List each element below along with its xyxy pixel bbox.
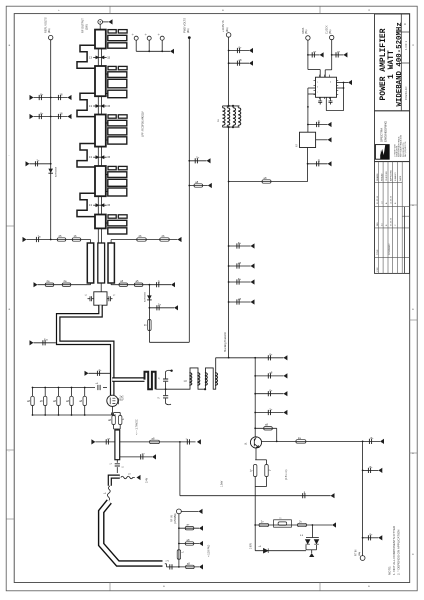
IC U1 bbox=[316, 77, 337, 97]
capacitor C33 branch bbox=[307, 124, 309, 126]
boxed component bbox=[274, 520, 292, 527]
capacitor C12 at S-trace corner bbox=[34, 342, 56, 344]
svg-text:P.MEAD: P.MEAD bbox=[380, 173, 383, 181]
svg-text:21-05-96: 21-05-96 bbox=[377, 195, 379, 204]
resistor R19 branch bbox=[178, 527, 180, 529]
capacitor C11 branch bbox=[149, 307, 151, 309]
svg-text:<---- 1.7AVDC: <---- 1.7AVDC bbox=[136, 419, 139, 435]
supply bus right bbox=[362, 441, 364, 555]
resistor R20 branch bbox=[178, 543, 180, 545]
svg-text:LPF: RC5F5/LMK5QV: LPF: RC5F5/LMK5QV bbox=[141, 111, 145, 137]
svg-text:a+: a+ bbox=[187, 524, 190, 527]
microstrip line TL1 bbox=[95, 30, 106, 49]
svg-text:RF OUTPUT: RF OUTPUT bbox=[81, 18, 85, 33]
centre microstrip TL8 bbox=[98, 243, 105, 283]
IC bottom stubs bbox=[319, 97, 321, 101]
emitter degeneration loop R24 R25 bbox=[255, 448, 257, 460]
resistor R27 bbox=[298, 523, 307, 526]
capacitor C14 branch bbox=[187, 439, 189, 444]
svg-text:5): 5) bbox=[158, 378, 160, 380]
resistor R10 bbox=[148, 320, 151, 331]
svg-text:DRAWN: DRAWN bbox=[376, 173, 379, 181]
title block right column: sheet and number cells bbox=[401, 31, 409, 33]
svg-text:APPROVED: APPROVED bbox=[390, 169, 393, 181]
BJT Q2 bbox=[250, 437, 261, 448]
svg-text:3.4V: 3.4V bbox=[146, 478, 149, 483]
emitter bias row bbox=[255, 524, 312, 526]
revision table bbox=[375, 162, 410, 274]
long wire to right bbox=[180, 495, 331, 497]
svg-text:1. NOT ALL COMPONENTS FITTED: 1. NOT ALL COMPONENTS FITTED bbox=[392, 525, 396, 575]
stub connection stubs bbox=[106, 73, 108, 75]
svg-text:N.BAILEY: N.BAILEY bbox=[394, 171, 397, 181]
diode pair vertical bbox=[311, 525, 313, 538]
terminal bottom bbox=[360, 556, 365, 561]
svg-text:8+: 8+ bbox=[40, 111, 43, 115]
thick L-trace TL12 bbox=[110, 477, 120, 486]
svg-text:8.a: 8.a bbox=[44, 338, 48, 342]
RF IN arrow bbox=[181, 510, 198, 512]
wire coil to caps bbox=[156, 388, 166, 390]
squiggle wire to C-trace bbox=[107, 486, 110, 500]
DATA terminal bbox=[306, 36, 310, 40]
svg-text:BLF: BLF bbox=[120, 399, 125, 402]
FET Q1 bbox=[107, 395, 118, 406]
supply wire down bbox=[228, 37, 230, 106]
capacitor C16 at C-trace end bbox=[165, 563, 167, 565]
gap capacitor C3 bbox=[93, 156, 106, 158]
serpentine transformer T1 with windings bbox=[166, 358, 216, 390]
svg-text:-: - bbox=[9, 449, 10, 453]
wire top of transformer bbox=[216, 357, 256, 359]
wire row to stub lines bbox=[27, 239, 91, 241]
quarter wave stub TL7 bbox=[108, 243, 114, 283]
svg-text:o+: o+ bbox=[142, 453, 145, 456]
diode D3 horizontal bbox=[254, 525, 256, 551]
choke L5 quad winding bbox=[223, 105, 240, 107]
capacitor C21 branch bbox=[362, 537, 364, 539]
svg-text:1.9aV: 1.9aV bbox=[221, 480, 224, 487]
capacitor C31 branch bbox=[307, 54, 309, 56]
capacitor C13 branch to gate bbox=[89, 372, 111, 374]
U2 right pin bbox=[316, 139, 328, 141]
resistor R9 branch bbox=[188, 185, 190, 187]
svg-text:o+: o+ bbox=[337, 51, 340, 54]
svg-text:8+: 8+ bbox=[370, 533, 373, 537]
svg-text:+: + bbox=[58, 8, 60, 12]
port arrow testpoints bbox=[170, 49, 174, 54]
svg-text:3+: 3+ bbox=[37, 159, 40, 163]
wire inductor squiggle to port bbox=[121, 476, 135, 479]
svg-text:FIT IN: FIT IN bbox=[356, 549, 358, 556]
gap capacitor C2 bbox=[93, 105, 106, 107]
DATA wire down bbox=[307, 40, 309, 69]
FWD VOLTS wire down bbox=[188, 38, 190, 343]
bias resistor bank R11-R15 bbox=[32, 387, 34, 389]
svg-text:FILE: FILE bbox=[377, 267, 379, 272]
capacitor C23 branch bbox=[228, 62, 230, 64]
capacitor C9 bbox=[157, 280, 161, 288]
svg-text:RF IN: RF IN bbox=[171, 515, 174, 522]
microstrip TL11 vertical bbox=[115, 430, 120, 460]
capacitor C19 branch bbox=[362, 441, 364, 443]
resistor R3 bbox=[137, 238, 147, 241]
capacitor C27 branch bbox=[228, 301, 230, 303]
capacitor C29 down with hook bbox=[165, 389, 167, 395]
right row from stub bbox=[110, 240, 112, 244]
svg-text:8+: 8+ bbox=[269, 389, 272, 393]
hairpin meander L3 bbox=[77, 144, 95, 168]
svg-text:(1W): (1W) bbox=[85, 24, 89, 30]
gap capacitor C4 bbox=[93, 204, 106, 206]
svg-text:(8A): (8A) bbox=[329, 29, 332, 34]
svg-text:DATA: DATA bbox=[302, 27, 305, 34]
revision table header texts bbox=[375, 181, 403, 183]
capacitor C8 bbox=[36, 234, 41, 242]
capacitor stub from TL11 bbox=[120, 456, 152, 458]
wire node vertical bbox=[179, 442, 181, 496]
svg-text:WIDEBAND 400-520MHz: WIDEBAND 400-520MHz bbox=[396, 22, 404, 106]
diode D2 bbox=[147, 295, 152, 299]
thick microstrip S-trace TL9 bbox=[58, 305, 112, 395]
svg-text:a): a) bbox=[122, 467, 124, 469]
wire REFL line bbox=[50, 40, 52, 240]
capacitor C28 up with hook bbox=[165, 382, 167, 390]
resistor R8 bbox=[134, 283, 143, 286]
resistor R5 bbox=[45, 283, 54, 286]
IC pin stubs bbox=[319, 75, 321, 78]
hairpin meander L4 bbox=[77, 193, 95, 216]
svg-text:C0243-1C: C0243-1C bbox=[404, 85, 408, 100]
svg-text:FWD VOLTS: FWD VOLTS bbox=[183, 18, 187, 33]
capacitor C26 branch bbox=[228, 281, 230, 283]
REFL VOLTS terminal bbox=[49, 35, 53, 39]
svg-text:-: - bbox=[9, 153, 10, 157]
svg-text:a): a) bbox=[245, 443, 247, 446]
svg-text:2+: 2+ bbox=[99, 368, 102, 372]
svg-text:+13.8V IN: +13.8V IN bbox=[221, 20, 225, 32]
RF output terminal J1 bbox=[98, 20, 103, 25]
quarter wave stub TL6 bbox=[87, 243, 93, 283]
thick C-trace TL13 input line bbox=[101, 502, 162, 564]
svg-text:5): 5) bbox=[158, 280, 160, 284]
svg-text:BZX84.B0: BZX84.B0 bbox=[145, 291, 147, 302]
svg-text:Blocking Transmit: Blocking Transmit bbox=[224, 332, 227, 352]
svg-text:(8A): (8A) bbox=[48, 28, 51, 33]
series gap trimmer box bbox=[100, 283, 102, 292]
svg-text:8+: 8+ bbox=[370, 465, 373, 469]
thick branch to coil TL10 bbox=[112, 377, 144, 382]
logo block bbox=[375, 111, 410, 162]
resistor R4 bbox=[160, 238, 170, 241]
resistor R22 branch bbox=[178, 566, 180, 568]
svg-text:8+: 8+ bbox=[269, 353, 272, 357]
title block box bbox=[375, 14, 410, 111]
svg-text:2+: 2+ bbox=[269, 407, 272, 411]
svg-text:d: d bbox=[330, 82, 331, 84]
svg-text:8+: 8+ bbox=[238, 241, 241, 245]
bottom feed row left bbox=[38, 284, 91, 286]
resistor R26 bbox=[259, 523, 269, 526]
U2 output down bbox=[307, 148, 309, 182]
coupling double-line segments between TL sections bbox=[97, 49, 99, 67]
capacitor C34 branch bbox=[307, 163, 309, 165]
svg-text:1 OF 1: 1 OF 1 bbox=[404, 40, 408, 50]
svg-text:REFL VOLTS: REFL VOLTS bbox=[44, 17, 48, 33]
svg-text:CLOCK: CLOCK bbox=[326, 25, 329, 34]
source resistors R16 R17 parallel bbox=[111, 413, 113, 416]
capacitor C10 branch bbox=[188, 160, 190, 162]
svg-text:FAX (09)248 2756: FAX (09)248 2756 bbox=[404, 142, 407, 157]
svg-text:ENGINEERING: ENGINEERING bbox=[384, 120, 388, 142]
svg-text:BZX84.B8: BZX84.B8 bbox=[56, 166, 58, 177]
regulator U2 box bbox=[307, 125, 309, 133]
microstrip line TL3 bbox=[95, 115, 106, 147]
feedback resistor R23a bbox=[254, 427, 256, 429]
open stub groups right of LPF bbox=[108, 30, 116, 33]
svg-text:5+: 5+ bbox=[196, 156, 199, 160]
svg-text:(8A): (8A) bbox=[226, 27, 229, 32]
logo square with spectrum peaks bbox=[375, 145, 389, 160]
svg-text:5+: 5+ bbox=[158, 303, 161, 307]
wire detector chain bbox=[148, 285, 150, 343]
svg-text:DATE: DATE bbox=[399, 175, 402, 181]
svg-text:TITLE: TITLE bbox=[377, 249, 379, 255]
svg-text:<-1DB PAD: <-1DB PAD bbox=[208, 544, 211, 557]
base row to bus bbox=[262, 440, 363, 442]
resistor R18 bbox=[150, 440, 160, 443]
svg-text:12-06-96: 12-06-96 bbox=[391, 195, 393, 204]
resistor R2 bbox=[72, 238, 81, 241]
FWD VOLTS terminal bbox=[188, 36, 191, 39]
capacitor C25 branch bbox=[228, 265, 230, 267]
capacitor C18 bbox=[303, 491, 306, 499]
capacitor C6 row bbox=[34, 116, 68, 118]
svg-text:(8A): (8A) bbox=[305, 29, 308, 34]
CLOCK terminal bbox=[330, 35, 334, 39]
gap capacitor C1 bbox=[93, 56, 106, 58]
capacitor C5 row bbox=[34, 97, 68, 99]
svg-text:1 WATT: 1 WATT bbox=[387, 50, 396, 79]
svg-text:SCHEMATIC: SCHEMATIC bbox=[388, 243, 391, 255]
resistor R6 bbox=[62, 283, 71, 286]
svg-text:8+: 8+ bbox=[238, 277, 241, 281]
capacitor C7 branch bbox=[30, 163, 51, 165]
svg-text:NOTE:: NOTE: bbox=[388, 566, 392, 575]
input row at TL11 bbox=[95, 441, 115, 443]
IC right pin to arrow bbox=[337, 82, 349, 84]
svg-text:o+: o+ bbox=[107, 438, 110, 441]
IC right loop bbox=[343, 83, 345, 111]
bottom feed row right bbox=[110, 283, 112, 285]
resistor R21 series bbox=[177, 550, 180, 560]
wire loop bottom bbox=[149, 341, 189, 343]
capacitor C32 branch bbox=[331, 54, 333, 56]
test point circles TP1 TP2 TP3 bbox=[134, 36, 138, 40]
RF IN terminal bbox=[177, 509, 182, 514]
resistor R23 bbox=[296, 440, 306, 443]
frame zone ticks bbox=[109, 6, 111, 13]
resistor R1 bbox=[57, 238, 66, 241]
port arrow RF out bbox=[109, 19, 113, 24]
svg-text:c: c bbox=[317, 92, 318, 94]
svg-text:E|: E| bbox=[318, 159, 321, 163]
hairpin meander L1 bbox=[77, 45, 95, 68]
microstrip line TL2 bbox=[95, 66, 106, 96]
svg-text:CHECKED: CHECKED bbox=[386, 171, 388, 181]
svg-text:(C 81-1 9): (C 81-1 9) bbox=[286, 469, 288, 480]
resistor R28 bbox=[262, 180, 271, 183]
svg-text:o+: o+ bbox=[313, 51, 316, 54]
svg-text:(8A): (8A) bbox=[187, 28, 190, 33]
collector wire from above bbox=[254, 358, 256, 437]
diode D1 BZX84 bbox=[48, 169, 53, 173]
source rail bbox=[33, 414, 116, 416]
svg-text:03-09-96: 03-09-96 bbox=[391, 217, 393, 226]
microstrip line TL5 bbox=[95, 215, 106, 229]
capacitor C24 branch bbox=[228, 245, 230, 247]
svg-text:8+: 8+ bbox=[371, 436, 374, 440]
resistor R7 bbox=[119, 283, 128, 286]
supply wire continues bbox=[228, 127, 230, 358]
svg-text:8+: 8+ bbox=[40, 92, 43, 96]
hairpin meander L2 bbox=[77, 93, 95, 116]
svg-text:2. * DEPENDS ON APPLICATION: 2. * DEPENDS ON APPLICATION bbox=[397, 530, 401, 575]
svg-text:(8A): (8A) bbox=[358, 552, 361, 556]
capacitor C22 branch bbox=[228, 50, 230, 52]
wire across to supply bbox=[229, 181, 308, 183]
capacitor C20 branch bbox=[362, 470, 364, 472]
svg-text:(1150MW): (1150MW) bbox=[175, 513, 177, 524]
svg-text:E): E) bbox=[318, 119, 321, 123]
gate rail bbox=[33, 387, 96, 389]
series capacitor C15 below TL11 bbox=[116, 460, 118, 463]
meander inductor L6 bbox=[145, 372, 156, 389]
CLOCK wire down bbox=[331, 40, 333, 70]
+13.8V IN terminal bbox=[226, 33, 231, 38]
attenuator vertical wire bbox=[178, 514, 180, 567]
decoupling branches on collector line bbox=[254, 357, 256, 359]
svg-text:A: A bbox=[404, 22, 406, 26]
IC stubs left bbox=[308, 87, 316, 89]
microstrip line TL4 bbox=[95, 166, 106, 196]
svg-text:8+: 8+ bbox=[239, 45, 242, 49]
svg-text:3.68V: 3.68V bbox=[251, 543, 253, 549]
